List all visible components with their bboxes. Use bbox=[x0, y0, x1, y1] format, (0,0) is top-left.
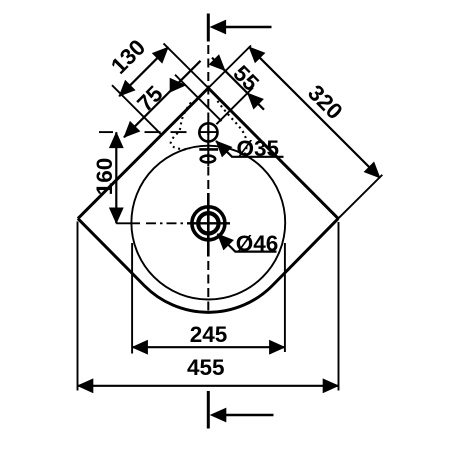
dimension 130 line bbox=[119, 47, 168, 96]
tap height dashed extension line bbox=[99, 131, 113, 133]
drain inner circle O46 bbox=[198, 213, 218, 233]
hidden rim edge dotted left bbox=[171, 103, 191, 150]
dimension 245 right arrowhead bbox=[269, 340, 286, 355]
centerline solid through tap hole bbox=[207, 122, 209, 167]
dimension 455 left arrowhead bbox=[77, 378, 94, 393]
extension line from apex up-right bbox=[208, 46, 251, 89]
dimension 160 top arrowhead bbox=[109, 132, 124, 149]
dimension 245 left arrowhead bbox=[131, 340, 148, 355]
dimension 455 left extension line bbox=[77, 222, 79, 391]
dimension 320 upper arrowhead bbox=[243, 41, 265, 63]
extension line for 130 lower end bbox=[112, 85, 162, 135]
bottom arrow line pointing left at centerline bbox=[213, 414, 274, 417]
label O46 leader line bbox=[218, 234, 277, 252]
dimension 245 line bbox=[132, 346, 285, 348]
overflow slot ellipse bbox=[201, 156, 215, 163]
extension line for 75 upper end bbox=[175, 75, 222, 122]
svg-text:455: 455 bbox=[187, 355, 225, 380]
dimension 75 line bbox=[124, 61, 201, 138]
label O46 arrowhead at drain bbox=[212, 228, 234, 250]
bar below tap hole bbox=[199, 148, 218, 151]
svg-text:245: 245 bbox=[190, 322, 228, 347]
dimension 75 upper arrowhead bbox=[170, 78, 187, 93]
dimension 55 line bbox=[212, 58, 264, 110]
dimension 245 right extension line bbox=[284, 243, 286, 352]
dimension 160 bottom extension line bbox=[116, 222, 140, 224]
dimension 160 bottom arrowhead bbox=[109, 208, 124, 225]
dimension 455 right extension line bbox=[338, 222, 340, 391]
svg-text:160: 160 bbox=[92, 158, 117, 196]
hidden rim edge dotted right bbox=[218, 101, 247, 155]
dimension 75 lower arrowhead bbox=[118, 121, 140, 143]
dimension 130 upper arrowhead bbox=[152, 41, 174, 63]
centerline solid through drain bbox=[207, 193, 210, 257]
label O35 arrowhead at tap hole bbox=[210, 135, 232, 157]
bottom arrowhead bbox=[210, 408, 227, 423]
drain horizontal centerline bbox=[187, 222, 230, 224]
basin outline: lower-left edge + front arc + lower-right edge bbox=[78, 219, 338, 313]
dimension 130 lower arrowhead bbox=[113, 80, 135, 102]
dimension 455 right arrowhead bbox=[323, 378, 340, 393]
vertical centerline dashed bbox=[207, 45, 209, 312]
dimension 320 lower arrowhead bbox=[364, 161, 386, 183]
extension line from tap hole up-right bbox=[216, 88, 253, 125]
bowl inner circle bbox=[131, 146, 285, 300]
dimension 55 lower arrowhead bbox=[242, 87, 264, 109]
dimension 320 line bbox=[249, 47, 380, 178]
basin outline: upper-left wall edge bbox=[78, 88, 208, 219]
dimension 245 left extension line bbox=[131, 243, 133, 354]
svg-text:Ø35: Ø35 bbox=[237, 136, 280, 161]
drain outer circle bbox=[192, 207, 225, 240]
top arrow line pointing left at centerline bbox=[213, 26, 272, 29]
svg-text:Ø46: Ø46 bbox=[236, 231, 279, 256]
basin outline: upper-right wall edge bbox=[208, 88, 338, 219]
dimension 160 line bbox=[115, 132, 117, 223]
top arrowhead bbox=[210, 20, 227, 35]
label O35 leader line bbox=[216, 141, 284, 157]
tap hole horizontal center tick bbox=[200, 131, 218, 133]
dimension 455 line bbox=[78, 385, 339, 387]
extension line from apex up-left bbox=[164, 43, 209, 88]
bottom wall corner mark: vertical line bbox=[207, 391, 210, 429]
tap hole circle O35 bbox=[199, 123, 217, 141]
extension line from right corner up-right bbox=[338, 175, 382, 219]
dimension 55 upper arrowhead bbox=[209, 54, 231, 76]
top wall corner mark: vertical line bbox=[207, 14, 210, 42]
